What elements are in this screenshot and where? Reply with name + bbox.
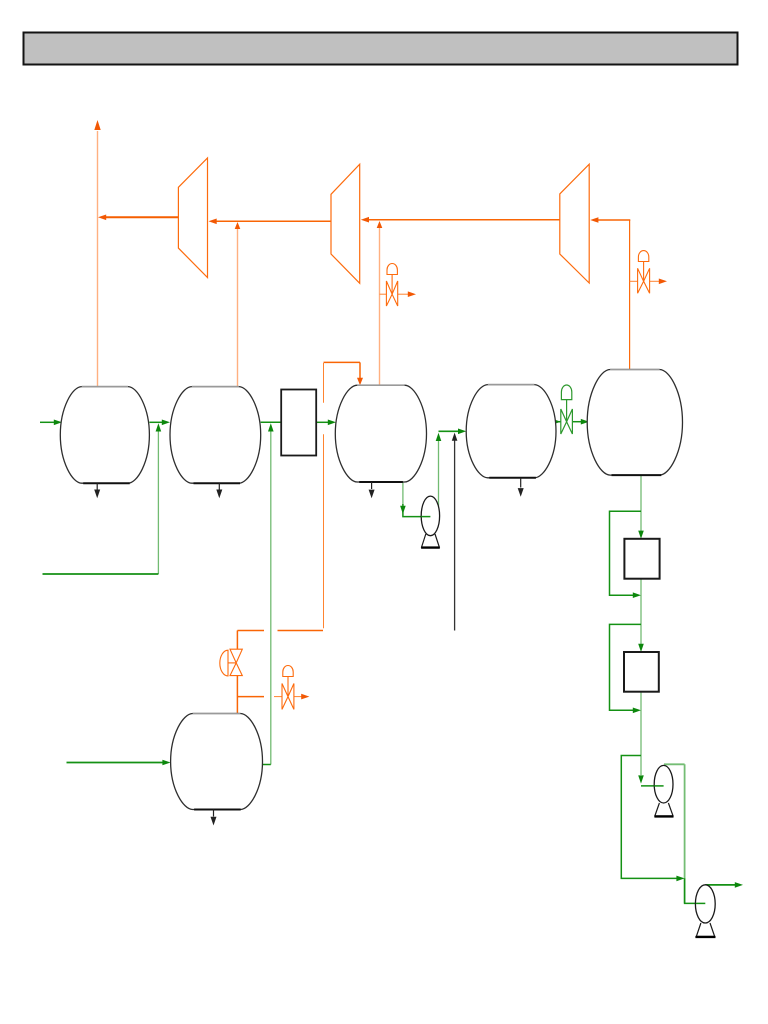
pipe: pump P1 discharge riser	[438, 437, 440, 508]
control valve CV3 (orange, vent right)	[282, 665, 294, 709]
pipe: V6 overhead riser	[270, 430, 272, 765]
pipe: bypass 1	[610, 511, 642, 595]
arrow: into turbine K3 inlet pointing left	[590, 217, 598, 223]
arrow: bypass1 rejoin	[633, 592, 641, 598]
arrow: V2 riser joining header (up)	[235, 222, 241, 229]
arrow: into V4	[458, 429, 466, 435]
arrow: into V6	[162, 760, 170, 766]
wire: hot bypass top run	[324, 361, 361, 363]
medium orange thin lines	[274, 220, 660, 697]
arrow: into turbine K1 inlet pointing left	[209, 219, 217, 225]
pipe: V1 to V2	[149, 421, 163, 423]
pipe: feed to vessel V1	[40, 421, 55, 423]
pipe: feed to vessel V6	[67, 762, 164, 764]
pipe: riser joining V1-V2 line	[157, 429, 159, 574]
black utility line	[454, 438, 456, 631]
pipe: V5 bottoms drop	[640, 475, 642, 532]
vessel V3	[335, 385, 426, 482]
arrow: black line up	[452, 433, 458, 441]
arrow: P1 riser up	[436, 433, 442, 441]
wire: turbine K2 exhaust to K1 inlet	[216, 220, 331, 222]
pipe: CV4 outlet to V5	[572, 421, 582, 423]
wire: valve MV1 outlet drop to vessel V6	[236, 676, 238, 714]
title bar	[24, 33, 738, 65]
arrow: V6 riser up into V2-E1 line	[268, 423, 274, 431]
square S2	[624, 652, 659, 692]
arrow: top export (up)	[94, 120, 100, 130]
pipe: V4 outlet to valve CV4	[556, 421, 561, 423]
pipe: P1 discharge to V4	[439, 430, 460, 432]
wire: branch to control valve CV3 left stub	[237, 696, 264, 698]
drain arrow under V1	[94, 483, 100, 498]
pump P3	[695, 885, 715, 937]
arrow: V3 riser joining header (up)	[377, 221, 383, 228]
wire: branch to control valve CV2	[630, 280, 638, 282]
pale orange risers	[98, 131, 380, 388]
arrow: down into P2 suction	[638, 775, 644, 783]
drain arrow under V2	[216, 483, 222, 498]
arrow: into square S2	[638, 644, 644, 652]
wire: hot bypass riser upper	[323, 363, 325, 403]
arrow: into V2	[162, 420, 170, 426]
arrow: CV3 outlet pointing right	[301, 694, 309, 700]
wire: bottom orange header left of crossing	[237, 630, 264, 632]
pipe: P3 discharge	[705, 884, 735, 886]
wire: bottom orange header right of crossing	[278, 630, 324, 632]
wire: CV1 outlet	[398, 293, 409, 295]
green arrowheads	[54, 419, 743, 888]
turbine K3	[560, 164, 589, 283]
wire: turbine K1 exhaust line (thick)	[106, 216, 178, 218]
pipe: P2 discharge downcomer	[684, 764, 686, 903]
manual valve MV1 (orange, with side arc)	[220, 649, 242, 676]
wire: drop into vessel V3 top	[359, 362, 361, 378]
pump P2	[654, 765, 673, 816]
control valve CV4 (green, between V4 and V5)	[561, 385, 573, 434]
pipe: V6 side outlet	[263, 764, 271, 766]
arrow: bypass2 rejoin	[633, 708, 641, 714]
pipe: lower feed header	[43, 573, 159, 575]
control valve CV2 (orange, vent right)	[638, 251, 650, 294]
turbine K2	[331, 164, 360, 283]
arrow: CV2 outlet pointing right	[659, 279, 667, 285]
pale green risers	[158, 429, 684, 903]
arrow: into turbine K2 inlet pointing left	[361, 217, 369, 223]
pipe: E1 to V3	[316, 421, 329, 423]
arrow: bypass3 rejoin	[676, 876, 684, 882]
wire: hot bypass riser lower	[323, 434, 325, 628]
vessel V4	[466, 385, 556, 478]
arrow: into square S1	[638, 531, 644, 539]
wire: vessel V5 vapor riser	[629, 220, 631, 370]
wire: vessel V1 overhead vapor riser	[97, 131, 99, 388]
wire: valve MV1 inlet drop	[236, 631, 238, 650]
pipe: P2 suction horizontal	[641, 785, 664, 787]
pipe: between squares	[640, 579, 642, 645]
arrow: V3 bottoms down	[400, 506, 406, 514]
vessel V5	[587, 370, 682, 476]
drain arrow under V3	[369, 482, 375, 498]
wire: turbine K3 exhaust to K2 inlet	[369, 219, 560, 221]
vessel V1	[60, 387, 149, 484]
pipe: P2 discharge top	[664, 763, 685, 765]
arrow: CV1 outlet pointing right	[408, 291, 416, 297]
pipe: V2 to HX E1	[261, 421, 282, 423]
pipe: square2 to pump P2	[640, 692, 642, 775]
arrow: riser up into V1-V2 line	[156, 423, 162, 431]
drain arrow under V4	[518, 478, 524, 497]
arrow: into V1	[54, 420, 62, 426]
arrow: P3 discharge right	[735, 882, 743, 888]
wire: branch to control valve CV1	[380, 293, 387, 295]
pipe: V3 bottoms elbow to P1	[403, 504, 431, 517]
heat exchanger E1	[281, 390, 316, 456]
wire: vessel V2 vapor riser	[237, 229, 239, 388]
wire: CV3 inlet stub	[274, 696, 282, 698]
strong orange headers	[216, 220, 630, 714]
square S1	[624, 539, 659, 579]
pipe: V3 bottoms vertical	[402, 482, 404, 505]
vessel V6	[171, 714, 263, 810]
green main piping	[40, 422, 735, 904]
turbine K1	[178, 158, 207, 278]
pump P1	[421, 496, 440, 548]
drain arrow under V6	[211, 810, 217, 826]
pipe: bypass 3 around P2	[621, 756, 677, 879]
control valve CV1 (orange, vent right)	[386, 264, 397, 307]
wire: CV2 outlet	[650, 280, 660, 282]
pipe: bypass 2	[610, 624, 642, 710]
wire: CV3 outlet	[294, 696, 302, 698]
pipe: downcomer to P3 suction	[685, 878, 706, 903]
wire: vessel V3 vapor riser	[379, 228, 381, 385]
arrow: into V5	[581, 419, 589, 425]
arrow: into riser at (99,217) pointing left	[98, 215, 106, 221]
wire: turbine K3 inlet header	[598, 219, 630, 221]
arrow: into V3	[328, 420, 336, 426]
vessel V2	[170, 387, 261, 484]
arrow: into CV4	[553, 419, 561, 425]
arrow: drop into V3 top (down)	[357, 378, 363, 386]
